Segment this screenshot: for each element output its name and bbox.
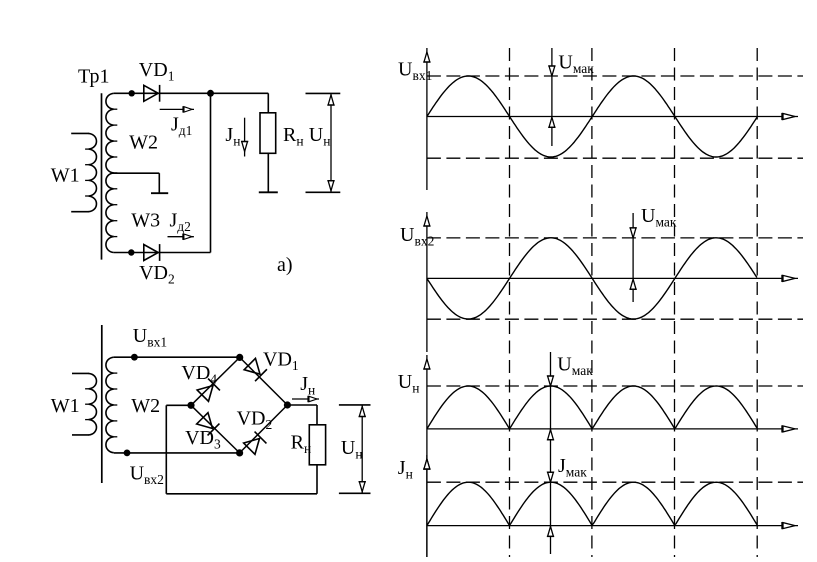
svg-text:W1: W1 xyxy=(51,395,80,417)
svg-text:а): а) xyxy=(277,254,293,276)
svg-text:Тр1: Тр1 xyxy=(78,66,109,88)
svg-text:W3: W3 xyxy=(131,210,160,232)
svg-text:W1: W1 xyxy=(51,164,80,186)
svg-text:W2: W2 xyxy=(131,395,160,417)
svg-text:W2: W2 xyxy=(129,132,158,154)
